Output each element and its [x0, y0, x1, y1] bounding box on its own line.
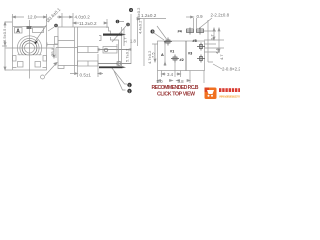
svg-text:0.7: 0.7 [210, 34, 215, 40]
svg-text:RECOMMENDED P.C.B: RECOMMENDED P.C.B [152, 85, 199, 91]
svg-text:0.9: 0.9 [197, 14, 204, 19]
svg-text:2-2.2±0.8: 2-2.2±0.8 [211, 13, 230, 18]
svg-text:B: B [152, 30, 154, 34]
svg-text:A: A [16, 28, 20, 34]
svg-text:7.5: 7.5 [151, 52, 156, 58]
svg-text:6.5±0.5: 6.5±0.5 [2, 28, 7, 42]
svg-text:12.0: 12.0 [28, 15, 37, 20]
svg-text:4.0±0.2: 4.0±0.2 [75, 14, 91, 19]
svg-text:#1: #1 [170, 50, 174, 54]
svg-text:www.aaaaa.com: www.aaaaa.com [219, 93, 240, 98]
svg-text:1.8: 1.8 [130, 39, 136, 44]
svg-text:4.4: 4.4 [215, 48, 220, 54]
svg-text:3.4: 3.4 [167, 72, 174, 77]
svg-text:Ø5.4: Ø5.4 [51, 48, 55, 56]
svg-text:1.7: 1.7 [123, 37, 128, 43]
svg-text:0.5±1: 0.5±1 [80, 72, 92, 77]
svg-text:5.7±0.2: 5.7±0.2 [125, 48, 130, 62]
svg-text:A: A [161, 53, 164, 57]
svg-text:4.4±0.2: 4.4±0.2 [138, 20, 143, 34]
svg-text:4.7: 4.7 [219, 54, 224, 60]
svg-text:11.2±0.2: 11.2±0.2 [79, 21, 97, 26]
svg-text:#5: #5 [193, 39, 197, 43]
svg-text:3.8: 3.8 [178, 79, 185, 84]
svg-text:5.0: 5.0 [157, 79, 164, 84]
svg-text:1.4±0.2: 1.4±0.2 [136, 7, 141, 21]
svg-text:1.2±0.2: 1.2±0.2 [141, 13, 157, 18]
svg-text:#2: #2 [180, 58, 184, 62]
svg-text:#3: #3 [188, 52, 192, 56]
svg-text:2-0.8×2.2: 2-0.8×2.2 [222, 67, 240, 72]
svg-text:CLICK TOP VIEW: CLICK TOP VIEW [157, 92, 195, 98]
